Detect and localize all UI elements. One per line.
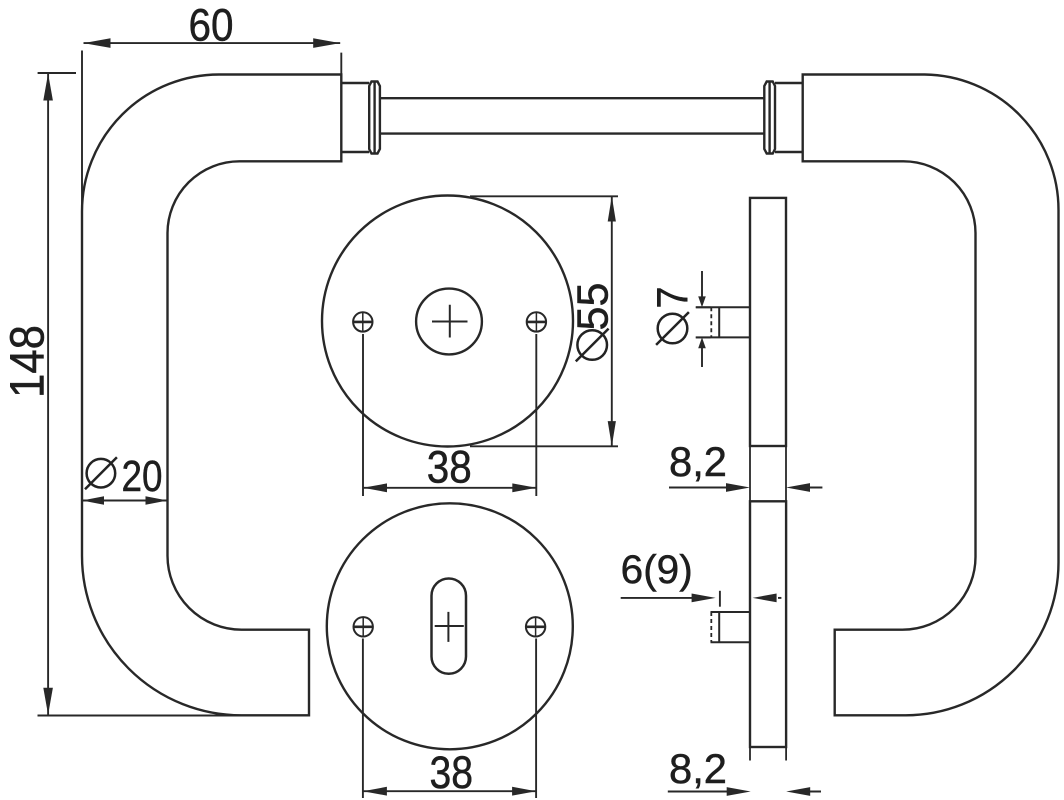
dim 6(9) lines xyxy=(621,597,694,599)
dim O55 lines xyxy=(470,196,618,446)
diameter symbol of label O7 xyxy=(656,312,689,345)
keyhole slot xyxy=(432,579,467,674)
bottom rosette (key rose) outline xyxy=(327,503,573,749)
screw S2 top-right xyxy=(527,312,546,331)
side plate bottom (8.2 thick) xyxy=(750,501,786,747)
svg-text:20: 20 xyxy=(122,452,163,501)
right bearing ring xyxy=(764,82,775,154)
keyhole centre cross xyxy=(435,612,464,642)
arrowheads dim 38 bottom xyxy=(363,787,387,796)
svg-text:55: 55 xyxy=(569,283,618,331)
dim O20 line xyxy=(82,500,168,502)
left bearing ring xyxy=(369,82,380,154)
side plate top (8.2 thick) xyxy=(750,198,786,446)
dim 38 bottom lines xyxy=(363,639,536,799)
arrowheads dim 6(9) xyxy=(692,594,716,603)
svg-text:7: 7 xyxy=(649,287,698,309)
top rosette centre cross xyxy=(432,305,468,338)
bottom fixing pin xyxy=(711,612,751,642)
arrowheads dim O55 xyxy=(608,196,616,221)
plate gap extension lines xyxy=(750,446,786,501)
dim 8,2 top lines xyxy=(669,487,822,489)
dim 60 lines xyxy=(84,42,341,44)
top rosette (rose) outline xyxy=(322,196,573,447)
spindle connecting bar xyxy=(380,98,764,133)
svg-text:8,2: 8,2 xyxy=(669,745,727,792)
diameter symbol of label O20 xyxy=(85,457,117,489)
arrowheads dim 148 xyxy=(43,74,53,101)
arrowheads dim O7 xyxy=(698,296,706,307)
screw S3 bottom-left xyxy=(354,617,373,636)
left lever handle L1 (front view) xyxy=(82,74,341,715)
dim 38 top lines xyxy=(363,334,536,496)
arrowheads dim 60 xyxy=(84,38,111,48)
dim O7 lines xyxy=(696,307,711,337)
right lever handle L2 (front view) xyxy=(803,75,1059,716)
left neck collar xyxy=(341,83,369,152)
screw S1 top-left xyxy=(353,312,372,331)
top fixing pin xyxy=(696,307,750,337)
arrowheads dim O20 xyxy=(82,496,104,504)
arrowheads dim 8,2 top xyxy=(726,483,750,492)
svg-text:8,2: 8,2 xyxy=(669,438,727,485)
arrowheads dim 8,2 bottom xyxy=(727,787,751,796)
svg-text:38: 38 xyxy=(427,442,472,493)
svg-text:60: 60 xyxy=(189,0,234,51)
svg-text:148: 148 xyxy=(2,325,55,398)
screw S4 bottom-right xyxy=(526,617,545,636)
diameter symbol of label O55 xyxy=(576,329,609,362)
svg-text:38: 38 xyxy=(430,747,474,798)
svg-text:6(9): 6(9) xyxy=(621,548,693,592)
arrowheads dim 38 top xyxy=(363,483,387,492)
dim 8,2 bottom lines xyxy=(668,791,821,793)
dim 148 lines xyxy=(47,74,49,715)
right neck collar xyxy=(775,83,803,152)
plate bottom extension lines xyxy=(750,747,786,761)
top rosette spindle hole xyxy=(416,289,482,355)
